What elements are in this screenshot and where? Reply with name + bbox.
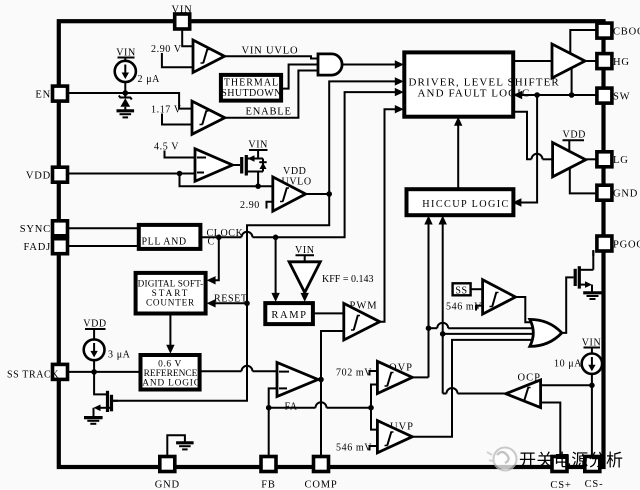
wire OCP output / fault riser B (to hiccup and OR, hop over UVP line): [439, 216, 534, 394]
comparator U13 OCP: [506, 373, 541, 408]
wire thermal shutdown to AND gate: [282, 65, 318, 89]
svg-text:3 μA: 3 μA: [108, 350, 131, 361]
comparator U1 VIN UVLO: [193, 40, 225, 73]
node SS/TRACK: [91, 369, 97, 375]
svg-text:CS-: CS-: [585, 479, 604, 490]
driver, level shifter and fault logic block: [404, 52, 560, 116]
svg-text:PGOOD: PGOOD: [613, 240, 640, 251]
IC outer boundary: [59, 21, 604, 467]
svg-text:START: START: [152, 288, 190, 298]
svg-text:2.90 V: 2.90 V: [151, 44, 182, 55]
wire PGOOD pin to transistor drain: [592, 251, 594, 256]
svg-text:REFERENCE: REFERENCE: [144, 369, 198, 379]
svg-text:1.17 V: 1.17 V: [151, 105, 182, 116]
wire PWM output riser into driver: [380, 105, 404, 322]
svg-text:FB: FB: [261, 480, 275, 490]
comparator U6 PWM: [344, 301, 380, 341]
svg-text:EN: EN: [35, 90, 51, 101]
pin COMP: [305, 457, 338, 490]
wire amplifier output to PMOS gate: [233, 164, 241, 166]
PLL AND CLK block: [139, 225, 201, 249]
wire hiccup output up into driver: [454, 117, 462, 190]
wire 1.17V reference into comparator: [151, 105, 192, 125]
wire KFF output into RAMP: [301, 293, 309, 302]
transistor Q2 (PGOOD open drain): [575, 250, 593, 293]
svg-text:VIN UVLO: VIN UVLO: [242, 46, 299, 57]
ground (analog ground tie): [176, 443, 194, 450]
wire driver to HG gate buffer: [513, 60, 552, 62]
svg-text:FADJ: FADJ: [23, 242, 51, 253]
comparator U2 ENABLE: [192, 101, 225, 134]
wire FB pin riser to error amp: [269, 388, 277, 456]
wire FADJ into PLL: [68, 245, 138, 247]
pin GND (bottom): [155, 457, 180, 490]
current source I2 3uA (soft-start): [83, 319, 130, 372]
svg-text:HICCUP LOGIC: HICCUP LOGIC: [422, 199, 509, 210]
svg-text:SW: SW: [613, 92, 630, 103]
pin FB: [261, 457, 276, 490]
pin CS+: [550, 457, 571, 490]
svg-text:VDD: VDD: [283, 166, 306, 177]
buffer U11 LG driver: [553, 130, 586, 177]
svg-text:CBOOT: CBOOT: [613, 27, 640, 38]
wire SS comparator output to OR gate: [516, 297, 534, 322]
svg-text:0.6 V: 0.6 V: [158, 360, 182, 370]
svg-text:VDD: VDD: [26, 171, 51, 182]
comparator U12 SS fault: [483, 280, 516, 314]
0.6V reference and logic block: [141, 355, 201, 390]
wire SS node to discharge transistor gate: [94, 372, 106, 395]
wire FA output to COMP net: [318, 379, 321, 381]
pin SYNC: [20, 221, 68, 236]
svg-text:DIGITAL SOFT-: DIGITAL SOFT-: [138, 279, 204, 289]
wire 702mV reference into OVP: [336, 368, 377, 379]
pin GND (right): [597, 185, 638, 200]
pin CS-: [585, 457, 604, 490]
svg-text:10 μA: 10 μA: [554, 359, 582, 370]
svg-text:THERMAL: THERMAL: [224, 78, 279, 89]
svg-text:开关电源分析: 开关电源分析: [519, 451, 623, 470]
zener diode D1 (EN clamp): [119, 96, 132, 111]
wire counter to 0.6V reference block: [166, 313, 174, 354]
wire 546mV reference into SS comparator: [446, 302, 483, 313]
wire GND pin to ground symbol: [167, 435, 185, 456]
pin PGOOD: [597, 236, 640, 251]
wire CBOOT to HG buffer supply: [570, 30, 597, 53]
svg-text:546 mV: 546 mV: [336, 443, 372, 454]
AND gate G1: [318, 54, 342, 75]
svg-text:SS: SS: [455, 285, 467, 296]
node FA output / COMP: [318, 377, 324, 383]
wire SW net down into hiccup logic: [512, 95, 537, 207]
wire SW line into driver (from SW pin): [513, 91, 597, 99]
svg-text:LG: LG: [613, 155, 629, 166]
wire EN to comparator: [68, 93, 193, 109]
buffer U10 HG driver: [552, 44, 585, 78]
wire 2.90 reference into VDD UVLO: [240, 200, 273, 211]
wire CS+ pin to OCP input: [541, 403, 561, 457]
wire 0.6V reference to error amp (hop over reset line): [199, 366, 278, 371]
wire reset net: riser to driver, down-left to counter and SS discharge: [112, 77, 404, 401]
wire 2.90V reference into comparator: [151, 44, 193, 67]
pin VIN (top): [171, 5, 192, 30]
wire HG buffer output to HG pin: [585, 60, 597, 62]
wire RESET into soft-start counter: [207, 294, 250, 308]
watermark logo: [487, 448, 517, 471]
wire UVP output riser C to OR gate: [412, 340, 533, 437]
current source I3 10uA (OC threshold): [554, 338, 602, 374]
hiccup logic block: [407, 189, 514, 215]
comparator U4 VDD UVLO: [273, 166, 312, 211]
wire SYNC into PLL: [68, 227, 138, 229]
transistor Q1 (VDD pass PMOS): [242, 140, 268, 187]
svg-text:VDD: VDD: [563, 130, 586, 141]
ground (PGOOD source): [583, 293, 602, 299]
wire VDD sense to VDD UVLO comparator: [180, 174, 273, 187]
svg-text:CS+: CS+: [550, 480, 571, 490]
svg-text:2 μA: 2 μA: [138, 74, 161, 85]
pin HG: [597, 54, 630, 69]
svg-text:GND: GND: [155, 480, 180, 490]
svg-text:KFF = 0.143: KFF = 0.143: [322, 274, 373, 285]
svg-text:702 mV: 702 mV: [336, 368, 372, 379]
RAMP generator block: [265, 303, 313, 324]
svg-text:SYNC: SYNC: [20, 224, 51, 235]
wire CLOCK into RAMP: [271, 237, 279, 302]
wire LG buffer lower rail to GND pin: [570, 168, 597, 193]
transistor Q3 (soft-start discharge): [94, 391, 119, 418]
svg-text:VIN: VIN: [171, 5, 192, 16]
wire VDD UVLO output: [306, 193, 330, 195]
pin CBOOT: [597, 23, 640, 38]
svg-text:GND: GND: [613, 189, 638, 200]
svg-text:4.5 V: 4.5 V: [154, 142, 179, 153]
wire driver to LG buffer (hop over SW branch): [512, 112, 552, 160]
svg-text:SS TRACK: SS TRACK: [7, 370, 59, 381]
wire LG buffer output to LG pin: [586, 158, 597, 160]
pin VDD: [26, 167, 68, 182]
wire AND output into driver block: [343, 60, 404, 68]
svg-text:VDD: VDD: [83, 319, 106, 330]
node PMOS drain / VDD rail: [255, 183, 261, 189]
wire SS/TRACK pin to reference block: [68, 371, 142, 373]
svg-text:RAMP: RAMP: [271, 310, 307, 321]
wire OR output to PGOOD transistor gate: [562, 277, 574, 333]
wire OVP output / fault riser A (to hiccup and OR): [412, 216, 533, 378]
pin FADJ: [23, 239, 67, 254]
svg-text:HG: HG: [613, 57, 630, 68]
OR gate G2 (fault OR): [530, 319, 562, 346]
svg-text:ENABLE: ENABLE: [246, 107, 292, 118]
svg-text:VIN: VIN: [248, 140, 268, 151]
SS pin sense label box: [453, 283, 483, 296]
svg-text:AND LOGIC: AND LOGIC: [142, 379, 201, 389]
wire CLOCK line (PLL output to driver): [199, 88, 403, 248]
digital soft-start counter block: [136, 273, 206, 314]
node FB sense: [266, 405, 272, 411]
node VDD branch: [177, 171, 183, 177]
node reset net: [326, 191, 332, 197]
svg-text:COUNTER: COUNTER: [146, 298, 195, 308]
wire COMP pin riser to PWM comparator: [321, 331, 344, 457]
svg-text:SHUTDOWN: SHUTDOWN: [221, 88, 281, 99]
pin EN: [35, 86, 67, 101]
wire RAMP output to PWM comparator: [312, 312, 344, 314]
comparator U9 UVP: [377, 421, 414, 453]
wire 4.5V reference into amplifier: [154, 142, 195, 158]
comparator U8 OVP: [377, 361, 413, 393]
svg-text:COMP: COMP: [305, 480, 338, 490]
pin SW: [597, 88, 630, 103]
wire HG buffer lower rail to SW: [571, 68, 573, 95]
buffer U5 VIN feed-forward (KFF): [289, 245, 373, 293]
thermal shutdown block: [221, 75, 282, 101]
node EN/zener junction: [123, 90, 129, 96]
svg-text:PLL AND: PLL AND: [142, 237, 187, 248]
wire FB sense line to OVP/UVP (hop over COMP riser): [269, 385, 378, 430]
ground (EN zener): [117, 111, 135, 118]
op-amp U7 error amplifier FA: [277, 363, 318, 413]
wire 546mV reference into UVP: [336, 443, 377, 454]
wire VIN pin down to UVLO comparator: [182, 29, 193, 46]
svg-text:AND FAULT LOGIC: AND FAULT LOGIC: [418, 88, 531, 100]
op-amp U3 (VDD regulator amp): [195, 149, 233, 182]
ground (soft-start discharge): [84, 418, 103, 424]
wire VIN UVLO output to AND gate: [225, 46, 319, 59]
wire CLOCK into soft-start counter: [207, 237, 219, 284]
current source I1 2uA (EN pullup): [115, 48, 160, 98]
pin LG: [597, 152, 629, 167]
wire current source to CS- pin and OCP input: [541, 374, 595, 457]
wire VDD pin to amplifier: [68, 173, 196, 175]
wire ENABLE output to AND gate: [225, 71, 318, 118]
svg-text:2.90: 2.90: [240, 200, 260, 211]
pin SS/TRACK: [7, 364, 68, 380]
